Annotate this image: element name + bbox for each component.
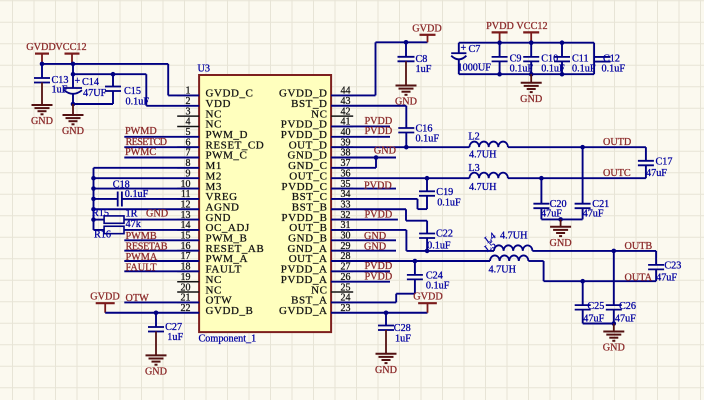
svg-text:1uF: 1uF: [52, 85, 68, 96]
wire pin 18 FAULT: [124, 270, 199, 272]
svg-text:GND: GND: [364, 231, 386, 242]
wire pin 41 PVDD_D: [331, 125, 390, 127]
net label OUTD: [603, 137, 631, 148]
net label OUTC: [603, 168, 631, 179]
svg-text:47uF: 47uF: [615, 313, 636, 324]
svg-text:3: 3: [186, 106, 191, 117]
wire C25-C26 bottom link: [583, 323, 614, 325]
net label GND pin 13: [146, 208, 168, 219]
capacitor C15: [105, 74, 121, 104]
wire pin 17 PWM_A: [124, 260, 199, 262]
svg-text:PWMD: PWMD: [125, 126, 157, 137]
ground below C25/C26: [603, 324, 625, 354]
svg-text:Component_1: Component_1: [199, 334, 257, 345]
svg-text:OUTD: OUTD: [603, 137, 631, 148]
svg-text:PWMB: PWMB: [126, 231, 157, 242]
wire C22 bottom: [426, 238, 428, 251]
capacitor C22: [419, 234, 435, 239]
junction C24 tap on OUT_A: [413, 259, 418, 264]
svg-text:47UF: 47UF: [83, 88, 107, 99]
svg-text:PVDD: PVDD: [364, 180, 392, 191]
power port PVDD: [486, 21, 514, 43]
wire pin 7 PWM_C: [124, 157, 199, 159]
wire pin 32 PVDD_B: [331, 219, 398, 221]
svg-text:RESETCD: RESETCD: [126, 137, 168, 148]
power port GVDD top-middle: [412, 23, 441, 42]
svg-text:OTW: OTW: [126, 293, 150, 304]
svg-text:OUTB: OUTB: [625, 241, 653, 252]
capacitor C25: [575, 281, 591, 309]
wire pin 31 OUT_B jog: [331, 230, 494, 251]
wire pin 35 PVDD_C: [331, 188, 396, 190]
junction ground tap C25/C26: [612, 321, 617, 326]
svg-text:PVDD: PVDD: [365, 271, 393, 282]
junction at GVDD C13 tap: [40, 62, 45, 67]
svg-text:C23: C23: [664, 260, 681, 271]
svg-text:0.1uF: 0.1uF: [426, 281, 450, 292]
svg-text:C7: C7: [469, 44, 481, 55]
junction C20 tap on OUTC: [539, 176, 544, 181]
wire pin 15 PWM_B: [124, 239, 199, 241]
junction C19 tap on OUT_C: [425, 176, 430, 181]
net label OUTB: [625, 241, 653, 252]
junction C27 tap: [154, 310, 159, 315]
svg-text:GVDD: GVDD: [413, 292, 442, 303]
capacitor C14 plus sign: [75, 76, 81, 87]
svg-text:GND: GND: [145, 366, 167, 377]
power port VCC12 top-left: [55, 42, 86, 64]
capacitor C15 labels: [124, 86, 149, 108]
junction C26 tap on OUTB: [612, 249, 617, 254]
capacitor C11: [554, 43, 570, 74]
svg-text:C14: C14: [82, 77, 99, 88]
IC U3 right pin names: [279, 88, 328, 317]
junction C14/C15 bottom: [71, 102, 76, 107]
resistor R15 value 1R: [126, 208, 138, 219]
wire vertical into pin 2: [145, 74, 147, 106]
wire pin 6 RESET_CD: [124, 146, 199, 148]
net label PWMB: [126, 231, 157, 242]
capacitor C21: [575, 147, 591, 208]
svg-text:GVDD: GVDD: [90, 292, 119, 303]
IC U3 left pin names: [206, 88, 265, 317]
junction bus row11: [91, 197, 96, 202]
capacitor C10: [523, 43, 539, 74]
svg-text:47uF: 47uF: [646, 168, 667, 179]
capacitor C21 labels: [583, 199, 610, 220]
capacitor C13 labels: [52, 75, 69, 96]
wire pin 33 BST_B jog: [331, 209, 427, 233]
svg-text:1R: 1R: [126, 208, 138, 219]
capacitor C25 labels: [583, 301, 604, 324]
svg-text:C25: C25: [587, 301, 604, 312]
svg-text:1uF: 1uF: [167, 332, 183, 343]
svg-text:GND: GND: [146, 208, 168, 219]
capacitor C7 designator: [469, 44, 481, 55]
inductor L4 designator: [483, 231, 498, 246]
wire pin 29 GND_A: [331, 250, 396, 252]
inductor L2: [469, 142, 507, 148]
capacitor C8 labels: [416, 54, 432, 75]
svg-text:U3: U3: [198, 64, 210, 75]
junction C9 top: [497, 40, 502, 45]
junction C9 bottom: [497, 72, 502, 77]
net label PWMC: [125, 147, 156, 158]
svg-text:GND: GND: [364, 241, 386, 252]
ground below ladder: [520, 74, 542, 105]
svg-text:1uF: 1uF: [416, 64, 432, 75]
capacitor C26 labels: [615, 301, 636, 324]
power port GVDD at pin 23: [413, 292, 442, 313]
power port VCC12: [516, 21, 547, 43]
svg-text:PVDD: PVDD: [365, 116, 393, 127]
capacitor C13: [34, 64, 50, 83]
capacitor C12 labels: [602, 54, 626, 75]
wire pin 9 M2: [94, 177, 200, 179]
resistor R15 designator: [92, 208, 109, 219]
net label OTW: [126, 293, 150, 304]
IC U3 left pin numbers 1-22: [181, 86, 191, 314]
capacitor C16 labels: [416, 124, 440, 145]
resistor R15: [94, 216, 200, 223]
junction bus row10: [91, 186, 96, 191]
inductor L3 labels: [468, 163, 497, 193]
IC U3 comment Component_1: [199, 334, 257, 345]
wire pin 8 M1: [94, 167, 200, 169]
junction at C14 column y74: [71, 72, 76, 77]
wire pin 28 OUT_A: [331, 260, 490, 262]
resistor R16: [94, 226, 200, 233]
net label PWMA: [126, 252, 158, 263]
wire VDD horizontal: [73, 73, 146, 75]
svg-text:47uF: 47uF: [656, 272, 677, 283]
wire C25 bottom: [582, 310, 584, 324]
svg-text:0.1uF: 0.1uF: [416, 134, 440, 145]
wire pin 38 GND_D: [331, 157, 396, 159]
net label PVDD pin26: [365, 271, 393, 282]
inductor L4: [494, 245, 532, 251]
junction C11 top: [560, 40, 565, 45]
svg-text:47k: 47k: [126, 219, 142, 230]
net label PVDD pin41: [365, 116, 393, 127]
wire pin 10 M3: [94, 188, 200, 190]
capacitor C18 labels: [113, 179, 149, 200]
svg-text:OUTC: OUTC: [603, 168, 631, 179]
capacitor C24: [407, 261, 423, 279]
junction C8 tap: [404, 40, 409, 45]
wire vertical into pin 1: [167, 64, 169, 96]
IC U3 right pins 44-23: [331, 95, 353, 312]
net label RESETAB: [126, 241, 168, 252]
svg-text:C15: C15: [124, 86, 141, 97]
ground below C14: [62, 104, 84, 137]
wire ladder right edge: [593, 43, 595, 74]
wire C19 bottom jog: [331, 196, 427, 209]
IC U3 left pins 1-22: [177, 95, 199, 312]
wire pin 21 OTW: [124, 301, 199, 303]
capacitor C17 labels: [646, 156, 672, 179]
svg-text:20: 20: [181, 282, 191, 293]
svg-text:PWMA: PWMA: [126, 252, 158, 263]
svg-text:19: 19: [181, 272, 191, 283]
junction at C15 tap: [111, 72, 116, 77]
inductor L5 designator: [483, 239, 498, 254]
net label RESETCD: [126, 137, 168, 148]
wire into pin 2 VDD: [146, 105, 199, 107]
ground below C20/C21: [550, 219, 572, 248]
svg-text:GND: GND: [520, 94, 542, 105]
svg-text:C19: C19: [436, 187, 453, 198]
capacitor C27 labels: [165, 322, 183, 343]
wire pin 26 PVDD_A: [331, 281, 390, 283]
svg-text:C17: C17: [656, 156, 673, 167]
wire OUTB down to C23: [655, 251, 657, 265]
wire pin 37 GND_C: [331, 167, 376, 169]
capacitor C24 labels: [426, 270, 450, 291]
junction C25 tap on OUTA: [580, 279, 585, 284]
capacitor C19 labels: [436, 187, 461, 209]
junction bus row12: [91, 207, 96, 212]
ground below C13: [31, 83, 53, 128]
wire OUTD down to C17: [645, 147, 647, 161]
svg-text:PVDD: PVDD: [365, 126, 393, 137]
capacitor C26: [606, 251, 622, 310]
net label GND pin30: [364, 231, 386, 242]
wire C26 bottom: [613, 310, 615, 324]
wire OUT_C after L3: [508, 177, 646, 179]
inductor L4 value: [500, 230, 528, 241]
junction C16 on OUT_D: [404, 145, 409, 150]
svg-text:GVDD: GVDD: [26, 42, 55, 53]
wire pin 23 GVDD_A: [331, 312, 427, 314]
svg-text:0.1uF: 0.1uF: [437, 198, 461, 209]
junction C11 bottom: [560, 72, 565, 77]
capacitor C20: [533, 178, 549, 208]
svg-text:GND: GND: [62, 126, 84, 137]
ground below C27: [145, 332, 167, 378]
svg-text:4.7UH: 4.7UH: [469, 150, 497, 161]
svg-text:GND: GND: [603, 343, 625, 354]
svg-text:0.1uF: 0.1uF: [126, 97, 150, 108]
capacitor C10 labels: [541, 54, 565, 75]
wire C20 bottom: [540, 208, 542, 219]
capacitor C28: [378, 313, 394, 330]
wire pin 27 PVDD_A: [331, 270, 390, 272]
svg-text:VCC12: VCC12: [516, 21, 547, 32]
power port GVDD at pin 22: [90, 292, 119, 313]
capacitor C9: [492, 43, 508, 74]
capacitor C28 labels: [394, 323, 411, 345]
inductor L5 value: [489, 265, 517, 276]
svg-text:PVDD: PVDD: [486, 21, 514, 32]
wire ladder bottom rail: [459, 73, 594, 75]
svg-text:+: +: [75, 76, 81, 87]
wire OUT_A after L5: [528, 261, 656, 281]
wire C23 bottom: [655, 269, 657, 281]
junction ground tap C20/C21: [558, 217, 563, 222]
wire ladder top rail: [459, 42, 594, 44]
inductor L5: [490, 255, 528, 261]
capacitor C7 plus sign: [461, 43, 467, 54]
net label PVDD pin32: [365, 210, 393, 221]
power port GVDD top-left: [26, 42, 55, 64]
wire pin 30 GND_B: [331, 239, 396, 241]
resistor R16 designator: [94, 230, 111, 241]
capacitor C14 polarized: [64, 64, 82, 104]
junction bus row13: [91, 217, 96, 222]
svg-text:VCC12: VCC12: [55, 42, 86, 53]
capacitor C19: [419, 178, 435, 196]
wire OUT_B after L4: [532, 250, 656, 252]
wire C16 bottom: [405, 133, 407, 148]
inductor L3: [469, 173, 507, 179]
svg-text:RESETAB: RESETAB: [126, 241, 168, 252]
wire C15 bottom to C14 column: [73, 103, 113, 105]
capacitor C17: [638, 161, 654, 166]
capacitor C22 labels: [427, 228, 453, 251]
wire pin 43 BST_D: [331, 106, 406, 128]
IC U3 right pin numbers 44-23: [341, 86, 351, 314]
svg-text:4.7UH: 4.7UH: [489, 265, 517, 276]
wire link pins 38-37: [375, 158, 377, 168]
svg-text:1000UF: 1000UF: [458, 63, 492, 74]
capacitor C23: [648, 265, 664, 270]
capacitor C12 plates: [594, 57, 610, 62]
wire pin 44 GVDD_D up: [331, 42, 427, 95]
svg-text:L2: L2: [468, 131, 479, 142]
IC U3 designator: [198, 64, 210, 75]
svg-text:4.7UH: 4.7UH: [469, 182, 497, 193]
capacitor C11 labels: [572, 54, 596, 75]
svg-text:47uF: 47uF: [583, 209, 604, 220]
capacitor C16: [398, 128, 414, 133]
net label GND pin38: [374, 146, 396, 157]
capacitor C7 value 1000UF: [458, 63, 492, 74]
capacitor C9 labels: [510, 54, 534, 75]
wire C20-C21 bottom link: [541, 218, 582, 220]
wire GVDD/VCC12 horizontal to pin 1: [42, 63, 168, 65]
svg-text:PVDD: PVDD: [365, 210, 393, 221]
wire C24 bottom jog: [331, 279, 415, 302]
svg-text:0.1uF: 0.1uF: [572, 64, 596, 75]
svg-text:0.1uF: 0.1uF: [125, 189, 149, 200]
net label PWMD: [125, 126, 157, 137]
ground below C8: [395, 61, 417, 107]
svg-text:4: 4: [186, 117, 191, 128]
inductor L2 labels: [468, 131, 497, 160]
capacitor C23 labels: [656, 260, 681, 283]
net label GND pin29: [364, 241, 386, 252]
ground below C28: [375, 330, 397, 376]
wire pin 12 AGND: [94, 208, 200, 210]
svg-text:GVDD_B: GVDD_B: [206, 305, 254, 317]
svg-text:GVDD_A: GVDD_A: [279, 305, 328, 317]
resistor R16 value 47k: [126, 219, 142, 230]
junction at VCC12 C14 tap: [71, 62, 76, 67]
IC U3 component body: [199, 75, 331, 332]
svg-text:R15: R15: [92, 208, 109, 219]
junction C10 top: [529, 40, 534, 45]
wire C17 bottom: [645, 165, 647, 178]
svg-text:GND: GND: [31, 116, 53, 127]
junction bus row9: [91, 176, 96, 181]
capacitor C27: [148, 313, 164, 332]
wire C18 left lead pin 11: [94, 198, 118, 200]
wire C21 bottom: [582, 208, 584, 219]
svg-text:R16: R16: [94, 230, 111, 241]
svg-text:GND: GND: [375, 365, 397, 376]
wire OUT_D after L2: [508, 146, 646, 148]
svg-text:1uF: 1uF: [395, 334, 411, 345]
wire pin 40 PVDD_D: [331, 136, 390, 138]
svg-text:FAULT: FAULT: [126, 262, 158, 273]
svg-text:GVDD: GVDD: [412, 23, 441, 34]
net label PVDD pin27: [365, 261, 393, 272]
net label OUTA: [625, 273, 653, 284]
wire left bus vertical: [93, 168, 95, 230]
wire pin 16 RESET_AB: [124, 250, 199, 252]
capacitor C18: [118, 192, 199, 207]
net label FAULT: [126, 262, 158, 273]
svg-text:PWMC: PWMC: [125, 147, 156, 158]
svg-text:GND: GND: [374, 146, 396, 157]
svg-text:4.7UH: 4.7UH: [500, 230, 528, 241]
junction C21 tap on OUTD: [580, 145, 585, 150]
svg-text:C22: C22: [436, 228, 453, 239]
net label PVDD pin40: [365, 126, 393, 137]
junction C22 on OUT_B: [425, 249, 430, 254]
wire pin 36 OUT_C: [331, 177, 469, 179]
svg-text:C26: C26: [619, 301, 636, 312]
capacitor C8: [398, 42, 415, 61]
svg-text:GND: GND: [550, 238, 572, 249]
net label PVDD pin35: [364, 180, 392, 191]
capacitor C14 labels: [82, 77, 107, 99]
svg-text:25: 25: [341, 282, 351, 293]
wire pin 39 OUT_D: [331, 146, 469, 148]
wire into pin 1 GVDD_C: [168, 94, 199, 96]
svg-text:OUTA: OUTA: [625, 273, 653, 284]
svg-text:L3: L3: [468, 163, 479, 174]
junction C10 bottom: [529, 72, 534, 77]
svg-text:+: +: [461, 43, 467, 54]
svg-text:C28: C28: [394, 323, 411, 334]
wire pin 22 GVDD_B: [105, 312, 199, 314]
svg-text:42: 42: [341, 106, 351, 117]
capacitor C7 polarized: [451, 43, 466, 74]
junction C28 tap: [384, 310, 389, 315]
wire pin 5 PWM_D: [124, 136, 199, 138]
junction pins 38/37: [374, 155, 379, 160]
svg-text:0.1uF: 0.1uF: [602, 64, 626, 75]
capacitor C20 labels: [541, 199, 567, 220]
